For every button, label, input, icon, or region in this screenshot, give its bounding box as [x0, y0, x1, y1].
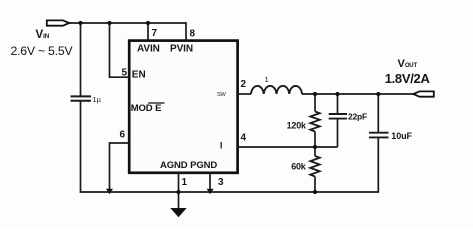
wire: 10uF bottom lead — [377, 138, 379, 193]
capacitor C2 22pF — [329, 114, 347, 119]
svg-text:MOD E: MOD E — [131, 103, 162, 114]
wire: inductor to VOUT terminal — [302, 93, 415, 95]
wire: pin 3 stub — [209, 173, 211, 192]
svg-text:EN: EN — [132, 69, 146, 80]
wire: 10uF top lead — [377, 94, 379, 132]
svg-text:3: 3 — [218, 177, 224, 188]
capacitor C3 10uF — [369, 133, 389, 138]
svg-text:120k: 120k — [287, 120, 307, 130]
svg-text:7: 7 — [152, 28, 158, 39]
resistor R2 60k — [310, 156, 319, 176]
svg-text:10uF: 10uF — [391, 131, 412, 141]
terminal VOUT (output pad) — [413, 91, 434, 96]
wire: bottom ground rail — [80, 191, 379, 193]
svg-text:2: 2 — [241, 79, 247, 90]
svg-text:5: 5 — [122, 68, 128, 79]
pin name FB (tiny mark) — [220, 142, 222, 149]
junction dots top rail — [78, 21, 82, 25]
junction dot pin1/ground — [176, 190, 180, 194]
wire: 120k bottom lead — [314, 132, 316, 148]
svg-text:1.8V/2A: 1.8V/2A — [385, 71, 431, 86]
wire: 22pF bottom lead — [337, 120, 339, 148]
junction dot 60k bottom — [313, 190, 317, 194]
svg-text:4: 4 — [241, 133, 247, 144]
svg-text:SW: SW — [217, 92, 227, 98]
wire: 60k top lead — [314, 147, 316, 156]
wire: ground stem — [178, 192, 180, 209]
junction dots output rail — [313, 92, 317, 96]
ground — [170, 208, 186, 217]
terminal VIN (input pad) — [47, 20, 69, 25]
wire: MODE branch (pin 6) — [110, 143, 130, 192]
svg-text:22pF: 22pF — [348, 111, 367, 121]
svg-text:AVIN: AVIN — [137, 44, 160, 55]
wire: top rail VIN — [69, 22, 187, 24]
svg-text:2.6V ~ 5.5V: 2.6V ~ 5.5V — [11, 44, 74, 58]
wire: pin 7 stub — [147, 23, 149, 40]
wire: pin 8 drop — [185, 22, 187, 40]
svg-text:60k: 60k — [291, 162, 307, 172]
capacitor C1 1uF input — [71, 96, 92, 100]
svg-text:8: 8 — [190, 29, 196, 40]
junction arrow pin3 on ground rail — [207, 189, 214, 194]
wire: input cap branch lower — [80, 101, 82, 193]
wire: 60k bottom lead — [314, 177, 316, 193]
wire: 22pF top lead — [337, 94, 339, 113]
IC U1 body — [129, 41, 237, 173]
svg-text:PVIN: PVIN — [170, 44, 193, 55]
junction dot FB node — [313, 145, 317, 149]
faint artifact smudge inside IC — [145, 85, 207, 95]
wire: input cap branch upper — [80, 23, 82, 96]
svg-text:1µ: 1µ — [93, 95, 102, 104]
svg-text:1: 1 — [265, 75, 269, 84]
wire: pin 1 stub — [178, 173, 180, 192]
wire: 120k top lead — [314, 94, 316, 112]
wire: SW output (pin 2) to inductor — [238, 93, 251, 95]
inductor L1 — [251, 86, 302, 94]
junction arrow pin6 on ground rail — [106, 189, 113, 194]
resistor R1 120k — [310, 112, 319, 132]
svg-text:1: 1 — [182, 177, 188, 188]
wire: FB (pin 4) to divider — [238, 146, 338, 148]
svg-text:6: 6 — [120, 130, 126, 141]
svg-text:AGND PGND: AGND PGND — [160, 160, 217, 171]
wire: EN branch (pin 5) — [110, 23, 130, 77]
